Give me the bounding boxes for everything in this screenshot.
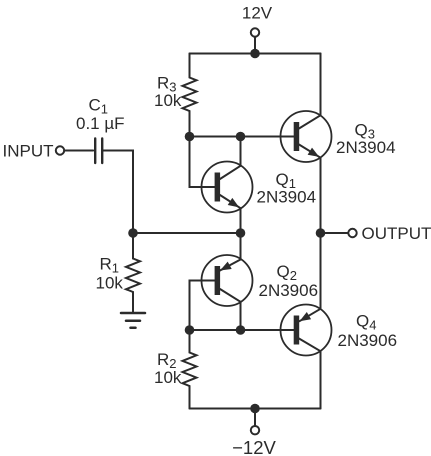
label Q3 — [355, 121, 375, 142]
wire — [132, 233, 134, 259]
label -12V — [232, 437, 276, 456]
terminal output — [348, 229, 356, 237]
svg-text:2N3904: 2N3904 — [257, 188, 317, 207]
label Q2 part 2N3906 — [259, 281, 319, 300]
label INPUT — [3, 142, 54, 161]
label R1 — [100, 255, 120, 276]
wire — [64, 150, 93, 152]
resistor R3 — [183, 78, 197, 112]
resistor R1 — [126, 259, 140, 293]
node Q2 collector junction — [236, 325, 246, 335]
label C1 value 0.1 uF — [76, 114, 125, 133]
label R2 — [157, 350, 177, 371]
terminal input — [56, 146, 64, 154]
wire — [132, 292, 134, 313]
wire — [254, 37, 256, 54]
wire bottom rail — [190, 408, 321, 410]
label Q1 — [276, 170, 296, 191]
svg-text:10k: 10k — [154, 91, 182, 110]
node top rail junction — [250, 49, 260, 59]
wire Q3 base — [190, 136, 295, 138]
transistor Q4 — [281, 305, 332, 356]
svg-text:INPUT: INPUT — [3, 142, 54, 161]
node below R3 — [185, 132, 195, 142]
wire Q2 collector — [240, 302, 242, 330]
svg-text:12V: 12V — [242, 4, 273, 23]
svg-text:2N3904: 2N3904 — [336, 138, 396, 157]
svg-text:2N3906: 2N3906 — [259, 281, 319, 300]
node bottom rail junction — [250, 404, 260, 414]
label R2 value 10k — [154, 368, 182, 387]
svg-text:R1: R1 — [100, 255, 120, 276]
transistor Q2 — [202, 255, 253, 306]
wire — [189, 54, 191, 78]
wire — [189, 386, 191, 409]
node R2 top junction — [185, 325, 195, 335]
label R1 value 10k — [96, 274, 124, 293]
label C1 — [89, 96, 109, 117]
wire lower base rail — [190, 329, 295, 331]
svg-text:Q4: Q4 — [356, 312, 376, 333]
wire Q4 collector down — [320, 351, 322, 408]
terminal -12V — [251, 426, 259, 434]
wire mid rail — [133, 232, 241, 234]
wire Q2 emitter from mid rail — [240, 233, 242, 260]
node Q1 Q2 emitter junction — [236, 228, 246, 238]
label R3 — [157, 74, 177, 95]
label Q3 part 2N3904 — [336, 138, 396, 157]
svg-text:10k: 10k — [154, 368, 182, 387]
wire — [189, 330, 191, 353]
terminal +12V — [251, 28, 259, 36]
label R3 value 10k — [154, 91, 182, 110]
node output junction — [316, 228, 326, 238]
resistor R2 — [183, 353, 197, 387]
wire Q1 emitter down — [240, 208, 242, 233]
wire Q2 base — [190, 281, 216, 331]
wire — [189, 111, 191, 137]
ground — [121, 313, 145, 328]
capacitor C1 — [95, 139, 102, 164]
wire — [254, 409, 256, 427]
wire Q4 emitter from output junction — [320, 233, 322, 309]
label Q2 — [277, 262, 297, 283]
label Q4 — [356, 312, 376, 333]
label OUTPUT — [362, 224, 431, 243]
svg-text:0.1 µF: 0.1 µF — [76, 114, 125, 133]
wire top rail — [190, 53, 321, 55]
node input junction — [128, 228, 138, 238]
svg-text:−12V: −12V — [232, 437, 276, 456]
wire Q1 collector — [240, 137, 242, 166]
wire Q3 emitter down — [320, 158, 322, 233]
node Q1 collector junction — [236, 132, 246, 142]
transistor Q1 — [202, 162, 253, 213]
label Q4 part 2N3906 — [338, 331, 398, 350]
svg-text:Q2: Q2 — [277, 262, 297, 283]
wire Q3 collector — [320, 54, 322, 116]
wire — [103, 151, 133, 234]
wire — [321, 232, 349, 234]
svg-text:10k: 10k — [96, 274, 124, 293]
svg-text:OUTPUT: OUTPUT — [362, 224, 431, 243]
transistor Q3 — [281, 111, 332, 162]
svg-text:2N3906: 2N3906 — [338, 331, 398, 350]
label 12V — [242, 4, 273, 23]
wire — [190, 137, 216, 188]
label Q1 part 2N3904 — [257, 188, 317, 207]
